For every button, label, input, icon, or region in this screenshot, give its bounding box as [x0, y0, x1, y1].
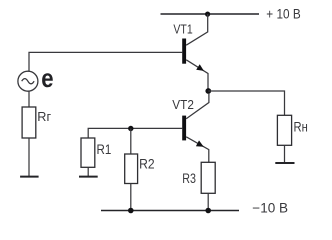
- svg-text:−10 В: −10 В: [252, 201, 288, 216]
- wire: source to VT1 base: [29, 52, 182, 71]
- svg-text:R1: R1: [97, 142, 112, 157]
- VT2 arrow: [196, 140, 204, 146]
- svg-text:VT1: VT1: [173, 22, 192, 37]
- VT2 base bar: [182, 116, 186, 141]
- ground (Rg): [20, 176, 38, 178]
- wire: source to Rg: [28, 91, 30, 107]
- resistor RH: [277, 115, 291, 145]
- svg-text:R3: R3: [182, 171, 196, 186]
- wire: VT1 collector to rail: [186, 14, 208, 45]
- VT2 lower diagonal: [186, 137, 209, 163]
- svg-text:Rг: Rг: [37, 109, 51, 124]
- transistor VT2: [182, 116, 209, 163]
- ground (RH): [275, 162, 294, 164]
- svg-text:VT2: VT2: [172, 97, 194, 112]
- resistor Rg: [22, 107, 36, 138]
- wire: R2 to -10V rail: [130, 184, 132, 211]
- VT1 emitter diagonal: [186, 60, 208, 89]
- node R2 top: [128, 126, 133, 131]
- node rail R2: [128, 208, 134, 214]
- wire: Rg to ground: [28, 138, 30, 176]
- svg-text:e: e: [41, 63, 53, 93]
- wire: node to RH: [208, 91, 284, 115]
- transistor VT1: [182, 39, 208, 89]
- svg-text:Rн: Rн: [294, 120, 308, 135]
- node: emitter junction: [205, 88, 211, 94]
- VT1 base bar: [182, 39, 186, 64]
- +10V rail: [161, 13, 260, 15]
- VT1 emitter arrow: [196, 64, 204, 71]
- wire: node to R2: [130, 129, 132, 155]
- resistor R3: [201, 162, 215, 193]
- node rail R3: [205, 208, 211, 214]
- wire: R3 to -10V rail: [207, 193, 209, 210]
- resistor R2: [125, 154, 138, 184]
- resistor R1: [81, 138, 95, 167]
- wire: RH to ground: [284, 145, 286, 162]
- wire: node to VT2 emitter: [186, 93, 209, 119]
- wire: R1 to ground: [87, 167, 89, 176]
- -10V rail: [101, 210, 239, 212]
- node on +10V rail: [205, 12, 210, 17]
- wire: VT2 base / divider: [88, 128, 182, 138]
- ground (R1): [79, 176, 98, 178]
- svg-text:R2: R2: [139, 157, 155, 172]
- svg-text:+ 10 В: + 10 В: [266, 7, 300, 22]
- AC source e: [18, 71, 38, 91]
